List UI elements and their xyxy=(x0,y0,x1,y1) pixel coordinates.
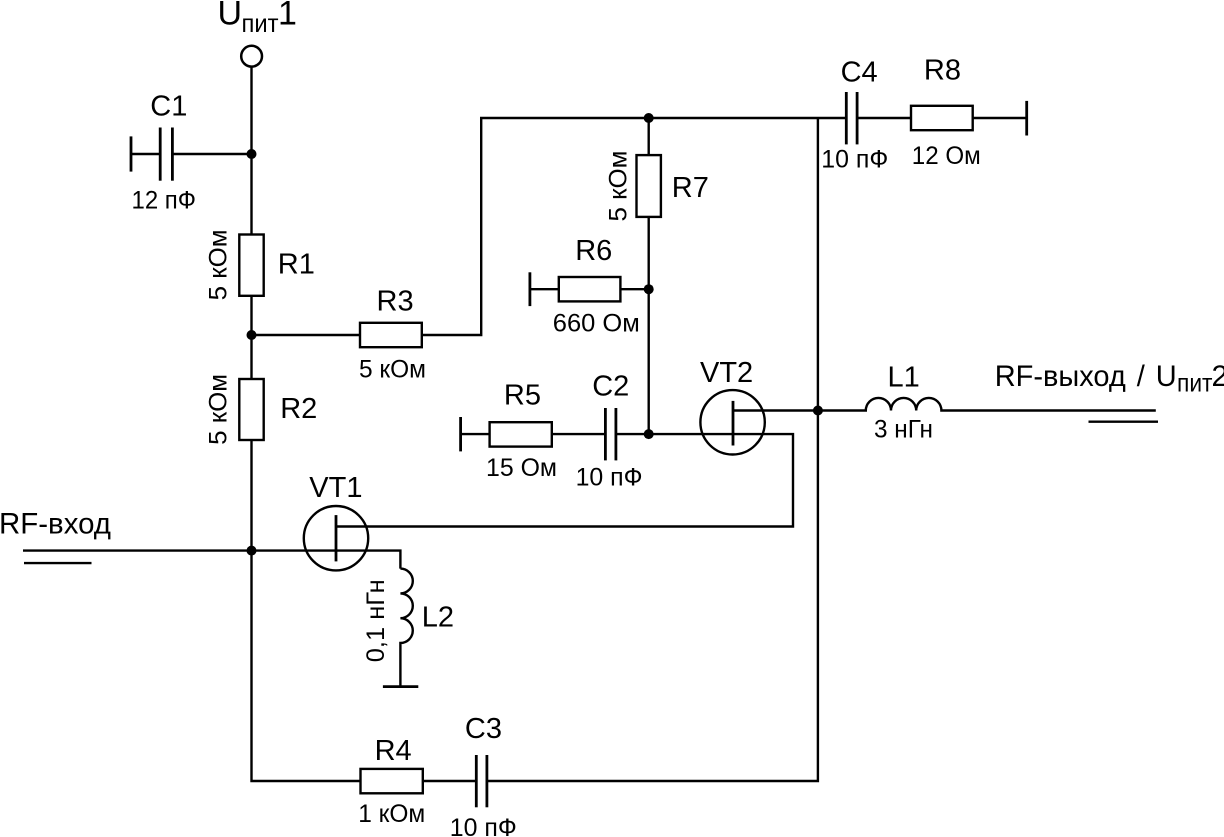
svg-text:C4: C4 xyxy=(841,57,878,89)
svg-text:VT1: VT1 xyxy=(309,472,362,504)
svg-text:3 нГн: 3 нГн xyxy=(874,415,933,443)
svg-text:R1: R1 xyxy=(278,249,315,281)
svg-text:2: 2 xyxy=(1212,360,1224,393)
svg-text:660 Ом: 660 Ом xyxy=(553,309,640,337)
svg-text:C1: C1 xyxy=(150,91,187,123)
svg-text:5 кОм: 5 кОм xyxy=(205,374,233,445)
svg-text:VT2: VT2 xyxy=(700,357,753,389)
svg-text:R4: R4 xyxy=(375,735,412,767)
svg-text:L1: L1 xyxy=(888,361,920,393)
svg-text:RF-выход / U: RF-выход / U xyxy=(995,360,1177,393)
svg-text:1: 1 xyxy=(278,0,297,33)
svg-text:0,1 нГн: 0,1 нГн xyxy=(362,579,390,662)
svg-text:RF-вход: RF-вход xyxy=(0,508,111,541)
svg-text:5 кОм: 5 кОм xyxy=(205,229,233,300)
svg-text:R3: R3 xyxy=(377,285,414,317)
svg-text:5 кОм: 5 кОм xyxy=(359,355,426,383)
svg-text:C3: C3 xyxy=(465,713,502,745)
svg-text:пит: пит xyxy=(242,10,280,38)
svg-text:R8: R8 xyxy=(924,55,961,87)
svg-text:12 пФ: 12 пФ xyxy=(132,187,197,215)
svg-text:10 пФ: 10 пФ xyxy=(450,814,517,837)
svg-text:1 кОм: 1 кОм xyxy=(358,800,425,828)
svg-text:пит: пит xyxy=(1177,368,1213,398)
svg-text:R5: R5 xyxy=(504,379,541,411)
svg-text:R2: R2 xyxy=(280,393,317,425)
svg-text:R7: R7 xyxy=(672,172,709,204)
svg-text:R6: R6 xyxy=(575,235,612,267)
svg-text:10 пФ: 10 пФ xyxy=(821,146,888,174)
svg-text:12 Ом: 12 Ом xyxy=(912,142,981,170)
svg-text:L2: L2 xyxy=(422,601,454,633)
svg-text:U: U xyxy=(218,0,243,33)
svg-text:C2: C2 xyxy=(592,371,629,403)
svg-text:10 пФ: 10 пФ xyxy=(576,464,643,492)
svg-text:15 Ом: 15 Ом xyxy=(486,454,557,482)
svg-text:5 кОм: 5 кОм xyxy=(605,151,633,222)
